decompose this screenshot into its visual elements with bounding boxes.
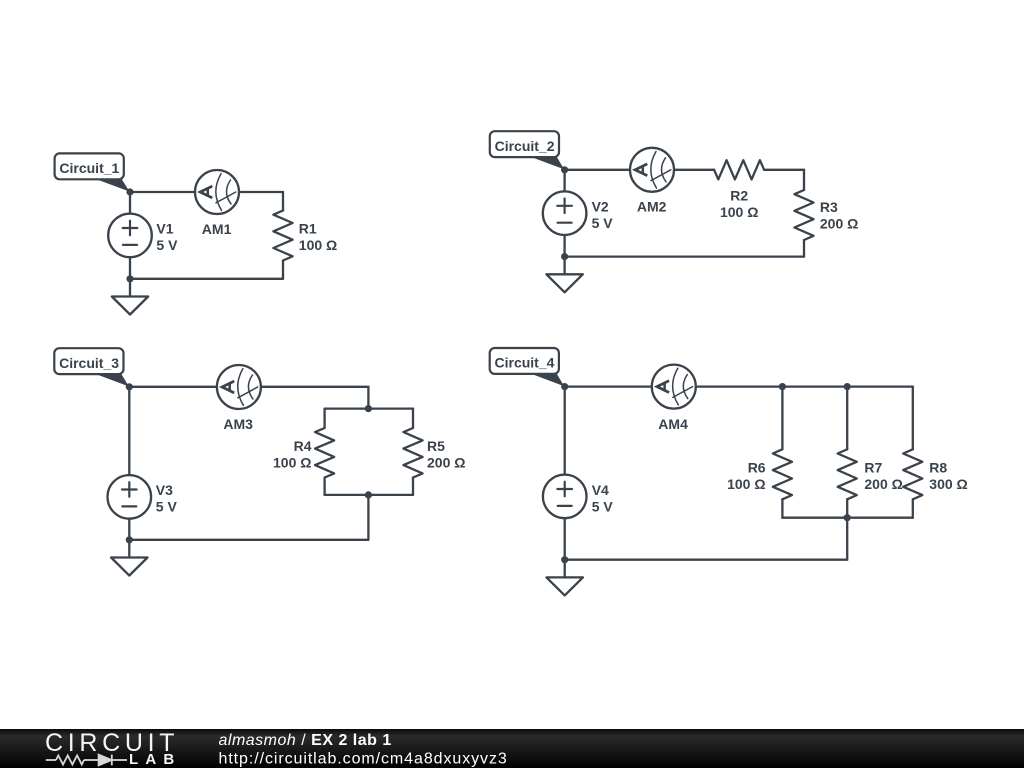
voltage source V2: [543, 191, 587, 235]
wire C4 stub down: [846, 518, 848, 560]
svg-text:Circuit_3: Circuit_3: [59, 355, 119, 371]
svg-text:200 Ω: 200 Ω: [820, 216, 858, 232]
wire C1 V1 top lead: [129, 192, 131, 214]
svg-text:100 Ω: 100 Ω: [273, 455, 311, 471]
svg-text:V3: V3: [156, 482, 173, 498]
wire C1 bottom: [130, 278, 283, 280]
svg-text:almasmoh / EX 2 lab 1: almasmoh / EX 2 lab 1: [219, 732, 392, 749]
wire C3 parallel bottom rail: [325, 494, 413, 496]
svg-text:100 Ω: 100 Ω: [727, 476, 765, 492]
svg-text:Circuit_4: Circuit_4: [495, 355, 555, 371]
svg-text:AM4: AM4: [658, 416, 688, 432]
svg-text:http://circuitlab.com/cm4a8dxu: http://circuitlab.com/cm4a8dxuxyvz3: [219, 750, 508, 767]
node C3 parallel top junction: [365, 405, 372, 412]
wire C4 R6 top lead: [781, 387, 783, 450]
wire C4 R7 top lead: [846, 387, 848, 450]
node C3 parallel bottom junction: [365, 491, 372, 498]
wire C3 V3 top lead: [128, 387, 130, 475]
resistor R4 (vertical zigzag): [315, 428, 334, 478]
wire C2 V2 top lead: [563, 170, 565, 192]
voltage source V3: [108, 475, 152, 519]
label Circuit_1 (callout box): [55, 153, 130, 191]
svg-text:LAB: LAB: [129, 751, 181, 768]
svg-text:5 V: 5 V: [156, 499, 178, 515]
wire C1 top (V1+ to R1 top): [130, 191, 283, 193]
svg-text:R1: R1: [299, 220, 317, 236]
svg-text:V4: V4: [592, 482, 609, 498]
wire C2 V2 bottom lead: [563, 235, 565, 257]
voltage source V1: [108, 214, 152, 258]
ground C1: [112, 279, 148, 315]
ammeter AM4: [652, 365, 696, 409]
node C4 top junction: [561, 383, 568, 390]
wire C2 top left (V2 to R2): [565, 169, 715, 171]
wire C1 right upper lead: [282, 192, 284, 211]
wire C4 V4 top lead: [564, 387, 566, 475]
node C2 top junction: [561, 166, 568, 173]
wire C2 top right (R2 to R3): [764, 169, 804, 171]
svg-text:V2: V2: [592, 199, 609, 215]
wire C3 top: [129, 386, 368, 388]
wire C4 top: [565, 385, 913, 387]
node C3 top junction: [126, 383, 133, 390]
wire C3 R4 top lead: [323, 409, 325, 428]
wire C3 V3 bottom lead: [128, 519, 130, 540]
svg-text:200 Ω: 200 Ω: [864, 476, 902, 492]
node C3 bottom junction: [126, 536, 133, 543]
node C4 bottom rail junction: [844, 514, 851, 521]
resistor R1 (vertical zigzag): [273, 211, 292, 261]
ground C2: [546, 257, 582, 293]
wire C1 V1 bottom lead: [129, 257, 131, 279]
wire C3 parallel top rail: [325, 407, 413, 409]
ground C4: [547, 560, 583, 596]
svg-text:5 V: 5 V: [156, 237, 178, 253]
wire C4 R8 bottom lead: [912, 499, 914, 517]
resistor R6 (vertical zigzag): [773, 449, 792, 499]
wire C2 R3 top lead: [803, 170, 805, 190]
ammeter AM1: [195, 170, 239, 214]
svg-text:100 Ω: 100 Ω: [720, 204, 758, 220]
wire C2 R3 bottom lead: [803, 240, 805, 257]
wire C2 bottom: [565, 255, 804, 257]
voltage source V4: [543, 475, 587, 519]
resistor R8 (vertical zigzag): [903, 449, 922, 499]
node C1 top junction: [126, 188, 133, 195]
wire C3 stub down from pair: [367, 495, 369, 540]
node C1 bottom junction: [126, 275, 133, 282]
node C2 bottom junction: [561, 253, 568, 260]
svg-text:AM3: AM3: [223, 416, 253, 432]
resistor R3 (vertical zigzag): [794, 190, 813, 240]
wire C3 bottom: [129, 539, 368, 541]
wire C3 R4 bottom lead: [323, 478, 325, 495]
wire C3 drop to parallel pair: [367, 387, 369, 409]
svg-text:R8: R8: [929, 460, 947, 476]
svg-text:R5: R5: [427, 438, 445, 454]
resistor R5 (vertical zigzag): [403, 428, 422, 478]
node C4 R7 top junction: [844, 383, 851, 390]
wire C3 R5 top lead: [412, 409, 414, 428]
svg-text:5 V: 5 V: [592, 215, 614, 231]
wire C4 R7 bottom lead: [846, 499, 848, 517]
svg-text:R4: R4: [294, 438, 312, 454]
wire C4 bottom: [565, 559, 848, 561]
svg-text:R3: R3: [820, 199, 838, 215]
CircuitLab logo: resistor-diode underline: [46, 755, 127, 766]
svg-text:R7: R7: [864, 460, 882, 476]
wire C1 right lower lead: [282, 261, 284, 279]
ammeter AM3: [217, 365, 261, 409]
svg-text:R6: R6: [748, 460, 766, 476]
wire C4 R8 top lead: [912, 387, 914, 450]
label Circuit_2 (callout box): [490, 131, 564, 169]
svg-text:AM2: AM2: [637, 199, 667, 215]
node C4 bottom junction: [561, 556, 568, 563]
svg-text:AM1: AM1: [202, 221, 232, 237]
label Circuit_4 (callout box): [490, 348, 565, 386]
wire C3 R5 bottom lead: [412, 478, 414, 495]
svg-text:300 Ω: 300 Ω: [929, 476, 967, 492]
svg-text:V1: V1: [156, 220, 173, 236]
svg-text:5 V: 5 V: [592, 498, 614, 514]
svg-text:Circuit_2: Circuit_2: [495, 138, 555, 154]
resistor R7 (vertical zigzag): [838, 449, 857, 499]
label Circuit_3 (callout box): [54, 348, 129, 386]
svg-text:Circuit_1: Circuit_1: [59, 160, 119, 176]
ground C3: [111, 540, 147, 576]
wire C4 parallel bottom rail: [782, 517, 912, 519]
svg-text:R2: R2: [730, 188, 748, 204]
node C4 R6 top junction: [779, 383, 786, 390]
svg-text:100 Ω: 100 Ω: [299, 237, 337, 253]
wire C4 R6 bottom lead: [781, 499, 783, 517]
resistor R2 (horizontal zigzag): [714, 160, 764, 179]
ammeter AM2: [630, 148, 674, 192]
wire C4 V4 bottom lead: [564, 518, 566, 560]
svg-text:200 Ω: 200 Ω: [427, 455, 465, 471]
